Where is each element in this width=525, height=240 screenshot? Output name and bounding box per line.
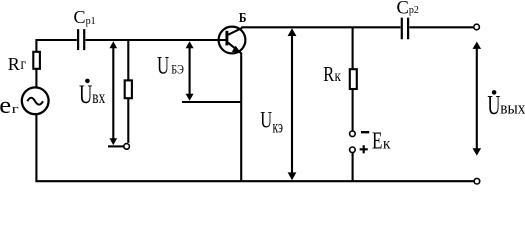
svg-text:C: C xyxy=(397,0,409,19)
svg-text:U: U xyxy=(260,108,272,133)
svg-text:R: R xyxy=(8,54,20,74)
svg-text:БЭ: БЭ xyxy=(171,64,184,77)
svg-text:кэ: кэ xyxy=(273,118,283,137)
svg-text:г: г xyxy=(21,56,27,73)
svg-text:р2: р2 xyxy=(409,5,419,16)
svg-text:к: к xyxy=(335,68,342,85)
svg-text:U: U xyxy=(79,80,93,109)
svg-text:U: U xyxy=(487,90,500,119)
svg-text:е: е xyxy=(0,91,11,118)
svg-text:U: U xyxy=(157,51,169,79)
svg-text:р1: р1 xyxy=(86,16,96,27)
svg-text:R: R xyxy=(323,63,334,86)
svg-text:E: E xyxy=(372,126,382,154)
svg-text:к: к xyxy=(383,136,391,153)
svg-text:вых: вых xyxy=(500,100,525,118)
svg-text:вх: вх xyxy=(92,88,105,107)
svg-text:Б: Б xyxy=(239,10,247,25)
svg-text:г: г xyxy=(12,102,19,116)
svg-text:C: C xyxy=(74,7,86,27)
